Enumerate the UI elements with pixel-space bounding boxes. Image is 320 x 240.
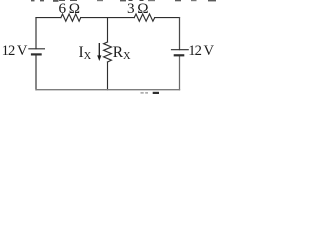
- svg-text:12 V: 12 V: [2, 43, 28, 59]
- wire bottom: [36, 89, 180, 91]
- wire right lower: [179, 55, 181, 89]
- cropped text remnants top edge: [31, 0, 216, 2]
- battery V2 right plates: [171, 50, 189, 56]
- svg-text:RX: RX: [113, 44, 131, 62]
- wire top-right segment: [155, 17, 180, 19]
- wire right upper: [179, 18, 181, 50]
- svg-text:IX: IX: [79, 44, 92, 62]
- wire left lower: [35, 55, 37, 90]
- svg-text:6 Ω: 6 Ω: [59, 0, 80, 17]
- wire top-left segment: [36, 17, 61, 19]
- battery V1 left plates: [28, 49, 45, 55]
- current arrow IX: [97, 43, 101, 61]
- wire left upper: [35, 18, 37, 49]
- resistor RX: [104, 42, 112, 62]
- svg-text:12 V: 12 V: [188, 43, 214, 59]
- resistor 6 ohm: [61, 14, 81, 21]
- wire middle lower: [107, 62, 109, 90]
- wire middle upper: [107, 18, 109, 42]
- resistor 3 ohm: [134, 14, 155, 21]
- cropped text remnants bottom edge: [141, 92, 160, 94]
- svg-text:3 Ω: 3 Ω: [127, 0, 148, 17]
- wire top-middle segment: [81, 17, 135, 19]
